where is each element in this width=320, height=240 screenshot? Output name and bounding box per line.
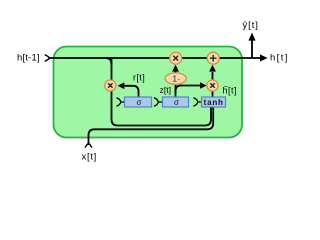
- times node top: [170, 52, 182, 64]
- plus node top: [207, 52, 219, 64]
- arrow h[t] output right: [260, 54, 268, 61]
- svg-text:ŷ[t]: ŷ[t]: [243, 20, 259, 31]
- svg-text:z[t]: z[t]: [160, 85, 172, 95]
- one-minus node: [165, 73, 186, 84]
- wire branch down from h line through reset multiply: [106, 58, 112, 64]
- svg-text:σ: σ: [174, 98, 179, 107]
- merge connector sigma1: [116, 98, 124, 106]
- input chevron x[t]: [85, 143, 92, 148]
- svg-text:~: ~: [224, 82, 229, 91]
- wire r*h product down and right to tanh: [112, 58, 212, 126]
- wire r arrow from sigma1 to reset multiply: [124, 86, 139, 97]
- svg-text:σ: σ: [137, 98, 142, 107]
- tanh gate box: [202, 97, 226, 107]
- svg-text:h[t]: h[t]: [270, 53, 289, 64]
- svg-text:tanh: tanh: [204, 98, 224, 107]
- arrow y hat branch up: [251, 40, 253, 58]
- GRU cell body: [54, 47, 243, 138]
- wire z riser to 1- node: [175, 85, 177, 98]
- wire tanh up to candidate multiply: [212, 91, 214, 98]
- input chevron h[t-1]: [45, 55, 50, 62]
- svg-text:h[t-1]: h[t-1]: [17, 53, 40, 64]
- sigma2 gate box: [163, 97, 189, 107]
- wire h[t-1] top line: [49, 57, 261, 59]
- wire z branch arrow to candidate multiply: [176, 86, 202, 94]
- merge connector tanh: [193, 98, 201, 106]
- wire x[t] up and right to tanh: [89, 107, 214, 146]
- arrow candidate multiply up to plus node: [212, 72, 214, 81]
- arrow 1- node up to times node: [175, 71, 177, 74]
- svg-text:x[t]: x[t]: [82, 152, 97, 163]
- merge connector sigma2: [154, 98, 163, 106]
- svg-text:-: -: [178, 76, 180, 83]
- times node reset (left): [105, 80, 116, 91]
- sigma1 gate box: [125, 97, 152, 107]
- svg-text:r[t]: r[t]: [133, 73, 145, 83]
- times node candidate: [207, 80, 218, 91]
